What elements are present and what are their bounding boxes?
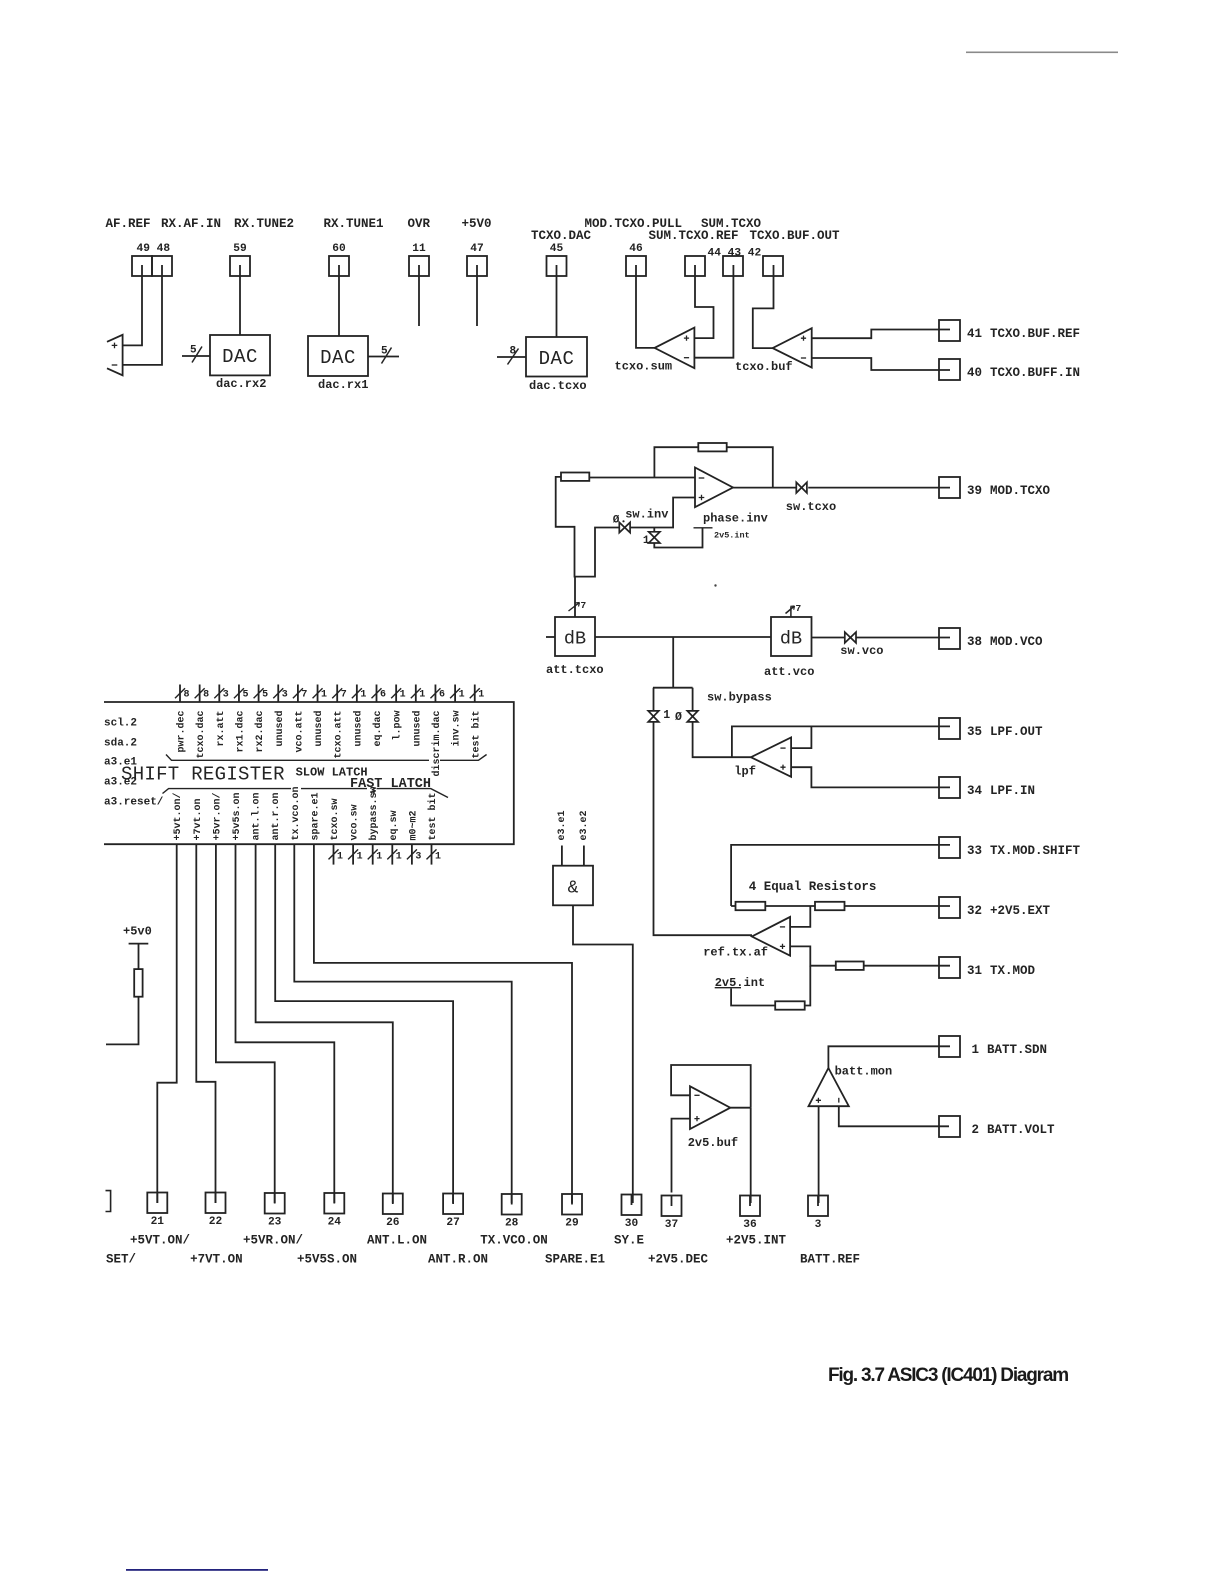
svg-text:OVR: OVR (408, 217, 431, 231)
svg-text:m0~m2: m0~m2 (408, 810, 419, 840)
svg-text:dac.rx2: dac.rx2 (216, 377, 266, 391)
svg-text:scl.2: scl.2 (104, 718, 137, 730)
pin 28 (502, 1194, 522, 1215)
wire spare.e1 to bottom pin (314, 844, 572, 1203)
DAC dac.rx2 (210, 335, 270, 375)
pin 33 TX.MOD.SHIFT (939, 837, 960, 858)
wire att.vco to sw.vco (812, 637, 845, 639)
svg-text:5: 5 (242, 689, 248, 700)
pin 31 TX.MOD (939, 957, 960, 978)
svg-text:30: 30 (625, 1218, 639, 1230)
resistor phase.inv input (561, 473, 589, 481)
pin 34 LPF.IN (939, 777, 960, 798)
pin 1 BATT.SDN (939, 1036, 960, 1057)
svg-text:tcxo.att: tcxo.att (334, 711, 345, 759)
svg-text:lpf: lpf (734, 765, 756, 779)
svg-text:sda.2: sda.2 (104, 737, 137, 749)
wire pin60 to dac.rx1 (338, 276, 340, 336)
separator line top right (966, 52, 1118, 54)
svg-text:38: 38 (967, 635, 982, 649)
wire tcxo.buf - input to pin 40 (812, 358, 950, 370)
svg-text:&: & (568, 879, 579, 899)
svg-text:unused: unused (274, 711, 286, 747)
svg-text:Fig. 3.7 ASIC3 (IC401) Diagram: Fig. 3.7 ASIC3 (IC401) Diagram (828, 1365, 1068, 1386)
wire + input junction to R3 and pin 31 (790, 946, 836, 965)
bus eq.dac width 6 (376, 685, 378, 703)
bus pwr.dec width 8 (179, 685, 181, 703)
svg-text:5: 5 (190, 345, 197, 357)
pin 23 (265, 1193, 285, 1214)
svg-text:41: 41 (967, 327, 982, 341)
svg-text:+5v5s.on: +5v5s.on (232, 792, 243, 840)
svg-text:ANT.R.ON: ANT.R.ON (428, 1253, 488, 1267)
svg-text:ant.l.on: ant.l.on (251, 792, 263, 840)
svg-text:LPF.IN: LPF.IN (990, 784, 1035, 798)
svg-text:31: 31 (967, 964, 982, 978)
wire feedback resistor to - node (654, 447, 698, 477)
svg-text:spare.e1: spare.e1 (310, 792, 321, 840)
svg-text:l.pow: l.pow (392, 711, 404, 741)
wire sw.inv to phase.inv + input (630, 498, 695, 528)
wire R1 to R2 (765, 905, 815, 907)
svg-text:Ø: Ø (675, 711, 682, 724)
wire +5v0 to resistor (138, 944, 140, 970)
wire +5vt.on/ to bottom pin (157, 844, 176, 1203)
svg-text:unused: unused (352, 711, 364, 747)
wire 2v5.buf output to pin 36 (730, 1107, 750, 1109)
wire resistor to page edge (106, 997, 139, 1045)
pin 40 TCXO.BUFF.IN (939, 359, 960, 380)
slow latch brace (166, 755, 429, 761)
svg-text:ANT.L.ON: ANT.L.ON (367, 1234, 427, 1248)
svg-text:SET/: SET/ (106, 1253, 136, 1267)
bus unused width 3 (277, 685, 279, 703)
svg-text:TX.VCO.ON: TX.VCO.ON (480, 1234, 548, 1248)
op-amp ref.tx.af (752, 917, 790, 956)
resistor R2 (815, 902, 845, 910)
svg-text:39: 39 (967, 484, 982, 498)
svg-text:BATT.REF: BATT.REF (800, 1253, 860, 1267)
pin 39 MOD.TCXO (939, 477, 960, 498)
svg-text:tcxo.buf: tcxo.buf (735, 360, 793, 374)
svg-text:ref.tx.af: ref.tx.af (703, 946, 768, 960)
pin 36 (740, 1196, 760, 1217)
svg-text:7: 7 (301, 689, 307, 700)
pin 29 (562, 1194, 582, 1215)
svg-text:1: 1 (337, 851, 343, 862)
svg-text:test bit: test bit (427, 792, 439, 840)
switch sw.vco (845, 632, 851, 643)
pin 59 (230, 256, 250, 276)
pin 49 (132, 256, 152, 276)
svg-text:e3.e1: e3.e1 (557, 810, 568, 840)
wire lpf + input to pin 34 (791, 767, 950, 787)
switch sw.tcxo (796, 482, 801, 493)
svg-text:46: 46 (629, 243, 643, 255)
svg-text:26: 26 (386, 1217, 400, 1229)
op-amp tcxo.buf (773, 328, 812, 367)
wire pin48 to buffer - input (123, 276, 162, 365)
bus rx1.dac width 5 (238, 685, 240, 703)
wire pin 37 to 2v5.buf + input (672, 1119, 691, 1193)
pin 3 (808, 1196, 828, 1217)
svg-text:+2V5.DEC: +2V5.DEC (648, 1253, 709, 1267)
wire stub pin 11 (418, 276, 420, 326)
svg-text:unused: unused (411, 711, 423, 747)
svg-text:sw.inv: sw.inv (625, 508, 668, 522)
op-amp 2v5.buf (690, 1086, 730, 1129)
svg-text:3: 3 (223, 689, 229, 700)
bus width 7 marker att.tcxo (569, 603, 580, 612)
svg-text:SUM.TCXO.REF: SUM.TCXO.REF (649, 229, 739, 243)
svg-text:21: 21 (151, 1216, 165, 1228)
bus inv.sw width 1 (454, 685, 456, 703)
svg-text:+5VR.ON/: +5VR.ON/ (243, 1234, 303, 1248)
svg-text:1: 1 (376, 851, 382, 862)
wire sw.vco to pin 38 (856, 637, 950, 639)
svg-text:FAST LATCH: FAST LATCH (350, 777, 431, 792)
footer blue line (126, 1569, 268, 1571)
pin 48 (152, 256, 172, 276)
resistor pull-up (134, 969, 142, 997)
wire & output to pin 30 (573, 905, 633, 1203)
pin 44 (685, 256, 705, 276)
op-amp lpf (751, 738, 791, 777)
pin 37 (662, 1196, 682, 1217)
svg-text:MOD.VCO: MOD.VCO (990, 635, 1043, 649)
svg-text:44 43 42: 44 43 42 (708, 248, 762, 260)
svg-text:1: 1 (419, 689, 425, 700)
svg-text:dB: dB (780, 629, 802, 650)
svg-text:rx2.dac: rx2.dac (254, 711, 266, 753)
bus rx2.dac width 5 (258, 685, 260, 703)
svg-text:TCXO.BUF.OUT: TCXO.BUF.OUT (750, 229, 841, 243)
svg-text:SPARE.E1: SPARE.E1 (545, 1253, 605, 1267)
svg-text:36: 36 (743, 1219, 757, 1231)
wire R3 to pin 31 (864, 965, 950, 967)
svg-text:+5vr.on/: +5vr.on/ (211, 792, 223, 840)
pin 2 BATT.VOLT (939, 1116, 960, 1137)
svg-text:att.vco: att.vco (764, 665, 814, 679)
svg-text:e3.e2: e3.e2 (579, 810, 590, 840)
wire pin44 to tcxo.sum + input (694, 276, 713, 338)
svg-text:22: 22 (209, 1216, 223, 1228)
pin 38 MOD.VCO (939, 628, 960, 649)
op-amp batt.mon (809, 1068, 849, 1106)
svg-text:1: 1 (459, 689, 465, 700)
resistor phase.inv feedback (698, 443, 726, 451)
bus unused width 1 (415, 685, 417, 703)
wire att.tcxo output up to phase.inv net (574, 577, 576, 617)
wire stub pin 47 (476, 276, 478, 326)
bus vco.att width 7 (297, 685, 299, 703)
svg-text:phase.inv: phase.inv (703, 512, 768, 526)
bus unused width 1 (317, 685, 319, 703)
svg-text:34: 34 (967, 784, 983, 798)
svg-text:1: 1 (435, 851, 441, 862)
wire +7vt.on to bottom pin (196, 844, 215, 1203)
svg-text:45: 45 (550, 243, 564, 255)
wire tcxo.buf + input to pin 41 (812, 330, 950, 339)
svg-text:6: 6 (439, 689, 445, 700)
svg-text:vco.att: vco.att (294, 711, 305, 753)
svg-text:35: 35 (967, 725, 982, 739)
attenuator att.tcxo dB (555, 617, 595, 656)
svg-text:DAC: DAC (539, 348, 575, 370)
svg-text:RX.TUNE2: RX.TUNE2 (234, 217, 294, 231)
svg-text:TX.MOD.SHIFT: TX.MOD.SHIFT (990, 844, 1081, 858)
wire pin49 to buffer + input (123, 276, 142, 345)
stray scan dot (714, 584, 716, 586)
op-amp input buffer (cut at page edge) (107, 335, 123, 376)
svg-text:+7VT.ON: +7VT.ON (190, 1253, 243, 1267)
svg-text:bypass.sw: bypass.sw (368, 786, 380, 840)
svg-text:AF.REF: AF.REF (106, 217, 151, 231)
svg-text:37: 37 (665, 1219, 678, 1231)
svg-text:49 48: 49 48 (137, 243, 171, 255)
bus l.pow width 1 (395, 685, 397, 703)
pin 32 +2V5.EXT (939, 897, 960, 918)
resistor R1 (731, 905, 735, 907)
pin 35 LPF.OUT (939, 718, 960, 739)
svg-text:2v5.int: 2v5.int (714, 531, 750, 541)
svg-text:RX.TUNE1: RX.TUNE1 (324, 217, 384, 231)
svg-text:1: 1 (400, 689, 406, 700)
wire R4 to 2v5.int rail (731, 989, 775, 1006)
svg-text:3: 3 (415, 851, 421, 862)
svg-text:sw.tcxo: sw.tcxo (786, 500, 836, 514)
bus stub m0~m2 width 3 (411, 844, 413, 864)
svg-text:1: 1 (971, 1043, 979, 1057)
pin 22 (206, 1193, 226, 1214)
bus stub bypass.sw width 1 (372, 844, 374, 864)
pin 27 (443, 1194, 463, 1215)
svg-text:5: 5 (381, 346, 388, 358)
svg-text:ant.r.on: ant.r.on (271, 792, 282, 840)
bus stub 5 into dac.rx2 (182, 355, 210, 357)
wire sw.tcxo to pin 39 (808, 487, 950, 489)
svg-text:TCXO.DAC: TCXO.DAC (531, 229, 592, 243)
pin 30 (622, 1195, 642, 1216)
svg-text:2: 2 (971, 1123, 979, 1137)
pin 46 (626, 256, 646, 276)
wire pin43 to tcxo.sum - input (694, 276, 733, 358)
attenuator att.vco dB (771, 617, 812, 656)
DAC dac.rx1 (308, 336, 368, 376)
wire +5vr.on/ to bottom pin (216, 844, 275, 1203)
wire stub att.tcxo input (546, 636, 555, 638)
svg-text:MOD.TCXO: MOD.TCXO (990, 484, 1051, 498)
svg-text:TCXO.BUFF.IN: TCXO.BUFF.IN (990, 366, 1080, 380)
svg-text:23: 23 (268, 1217, 282, 1229)
bus stub eq.sw width 1 (391, 844, 393, 864)
wire resistor to - input (589, 477, 695, 479)
svg-text:3: 3 (815, 1219, 822, 1231)
wire pin59 to dac.rx2 (239, 276, 241, 335)
op-amp phase.inv (695, 468, 733, 508)
svg-text:8: 8 (510, 346, 517, 358)
svg-text:sw.vco: sw.vco (840, 644, 883, 658)
svg-text:+5v0: +5v0 (123, 925, 152, 939)
wire feedback net left (556, 477, 620, 577)
pin 42 (763, 256, 783, 276)
pin 26 (383, 1194, 403, 1215)
svg-text:40: 40 (967, 366, 982, 380)
wire lpf - input junction (791, 726, 811, 748)
svg-text:1: 1 (360, 689, 366, 700)
bus discrim.dac width 6 (434, 685, 436, 703)
switch bypass 0 (692, 688, 694, 711)
pin 43 (723, 256, 743, 276)
bus stub test bit width 1 (431, 844, 433, 864)
pin 21 (147, 1193, 167, 1214)
svg-text:8: 8 (184, 689, 190, 700)
svg-text:59: 59 (233, 243, 247, 255)
svg-text:tcxo.sw: tcxo.sw (330, 798, 341, 840)
bus stub vco.sw width 1 (352, 844, 354, 864)
wire ant.l.on to bottom pin (256, 844, 393, 1203)
svg-text:1: 1 (357, 851, 363, 862)
pin 47 (467, 256, 487, 276)
wire batt.mon - input to pin 2 (839, 1106, 949, 1126)
bus tcxo.att width 7 (336, 685, 338, 703)
svg-text:7: 7 (796, 603, 802, 614)
resistor R4 (775, 1001, 805, 1009)
svg-text:unused: unused (313, 711, 325, 747)
wire R2 to pin 32 (845, 905, 951, 907)
svg-text:dac.tcxo: dac.tcxo (529, 379, 587, 393)
bus stub 5 out of dac.rx1 (368, 356, 399, 358)
wire pin46 to tcxo.sum (636, 276, 655, 348)
svg-text:+2V5.INT: +2V5.INT (726, 1234, 787, 1248)
svg-text:2v5.buf: 2v5.buf (688, 1136, 738, 1150)
wire tx.vco.on to bottom pin (294, 844, 511, 1203)
svg-text:rx.att: rx.att (216, 711, 227, 747)
svg-text:28: 28 (505, 1218, 519, 1230)
svg-text:DAC: DAC (222, 346, 258, 368)
svg-text:1: 1 (663, 709, 670, 722)
bus stub tcxo.sw width 1 (333, 844, 335, 864)
wire bypass1 down to ref.tx.af (654, 722, 753, 935)
svg-text:SY.E: SY.E (614, 1234, 644, 1248)
wire phase.inv feedback (727, 447, 773, 487)
shift register block (104, 702, 514, 844)
switch sw.inv (619, 522, 624, 532)
pin 11 (409, 256, 429, 276)
svg-text:RX.AF.IN: RX.AF.IN (161, 217, 221, 231)
svg-text:7: 7 (581, 600, 587, 611)
svg-text:pwr.dec: pwr.dec (176, 711, 188, 753)
wire junction down to bypass switches (672, 637, 674, 688)
svg-text:47: 47 (470, 243, 483, 255)
wire + node down to R4 (805, 966, 811, 1006)
bus stub 8 into dac.tcxo (497, 356, 526, 358)
svg-text:dB: dB (564, 629, 586, 650)
svg-text:1: 1 (321, 689, 327, 700)
svg-text:24: 24 (328, 1217, 342, 1229)
bus unused width 1 (356, 685, 358, 703)
wire pin45 to dac.tcxo (556, 276, 558, 337)
AND gate & (553, 866, 593, 906)
node 2v5.int rail (694, 527, 713, 529)
svg-text:+5vt.on/: +5vt.on/ (172, 792, 184, 840)
svg-text:27: 27 (446, 1217, 459, 1229)
svg-text:1: 1 (478, 689, 484, 700)
svg-text:discrim.dac: discrim.dac (431, 711, 443, 777)
bus rx.att width 3 (218, 685, 220, 703)
svg-text:1: 1 (396, 851, 402, 862)
svg-text:rx1.dac: rx1.dac (234, 711, 246, 753)
wire pin42 to tcxo.buf output (753, 276, 774, 348)
svg-text:att.tcxo: att.tcxo (546, 663, 604, 677)
wire 2v5.buf feedback (671, 1065, 751, 1108)
svg-text:8: 8 (203, 689, 209, 700)
svg-text:+5VT.ON/: +5VT.ON/ (130, 1234, 190, 1248)
op-amp tcxo.sum (655, 328, 695, 369)
svg-text:29: 29 (565, 1218, 579, 1230)
pin 41 TCXO.BUF.REF (939, 320, 960, 341)
svg-text:tx.vco.on: tx.vco.on (291, 786, 302, 840)
svg-text:inv.sw: inv.sw (451, 711, 463, 747)
wire att.tcxo to att.vco (595, 636, 771, 638)
wire +5v5s.on to bottom pin (236, 844, 335, 1203)
svg-text:+5V5S.ON: +5V5S.ON (297, 1253, 357, 1267)
svg-text:test bit: test bit (470, 711, 482, 759)
svg-text:dac.rx1: dac.rx1 (318, 378, 368, 392)
svg-text:vco.sw: vco.sw (350, 804, 361, 840)
fast latch brace (163, 789, 292, 794)
wire phase.inv output (733, 487, 796, 489)
bus test bit width 1 (474, 685, 476, 703)
svg-text:6: 6 (380, 689, 386, 700)
bus tcxo.dac width 8 (199, 685, 201, 703)
svg-text:LPF.OUT: LPF.OUT (990, 725, 1043, 739)
wire ant.r.on to bottom pin (275, 844, 453, 1203)
svg-text:DAC: DAC (320, 347, 356, 369)
wire lpf output feedback to pin 35 (732, 726, 950, 757)
svg-text:SHIFT REGISTER: SHIFT REGISTER (121, 764, 285, 786)
svg-text:11: 11 (412, 243, 426, 255)
svg-text:4 Equal Resistors: 4 Equal Resistors (749, 880, 877, 894)
wire - input junction (790, 906, 810, 927)
svg-text:Ø: Ø (613, 514, 620, 526)
svg-text:5: 5 (262, 689, 268, 700)
svg-text:tcxo.sum: tcxo.sum (615, 360, 673, 374)
svg-text:+2V5.EXT: +2V5.EXT (990, 904, 1051, 918)
pin 45 (547, 256, 567, 276)
svg-text:sw.bypass: sw.bypass (707, 691, 772, 705)
bus width 7 marker att.vco (790, 607, 792, 617)
svg-text:eq.dac: eq.dac (372, 711, 384, 747)
wire batt.mon output to pin 1 (828, 1046, 950, 1069)
svg-text:tcxo.dac: tcxo.dac (195, 711, 207, 759)
svg-text:eq.sw: eq.sw (389, 810, 400, 840)
switch 1 to 2v5.int (653, 528, 655, 532)
DAC dac.tcxo (526, 337, 587, 377)
wire pin 3 to batt.mon + input (818, 1106, 820, 1203)
svg-text:BATT.VOLT: BATT.VOLT (987, 1123, 1055, 1137)
wire bypass0 to lpf output (693, 722, 751, 757)
wire pin 33 to feedback node (731, 845, 950, 906)
svg-text:7: 7 (341, 689, 347, 700)
svg-text:a3.reset/: a3.reset/ (104, 797, 164, 809)
svg-text:BATT.SDN: BATT.SDN (987, 1043, 1047, 1057)
resistor R3 (836, 962, 864, 970)
svg-text:batt.mon: batt.mon (835, 1065, 893, 1079)
svg-text:32: 32 (967, 904, 982, 918)
pin 60 (329, 256, 349, 276)
svg-text:1: 1 (643, 535, 650, 547)
